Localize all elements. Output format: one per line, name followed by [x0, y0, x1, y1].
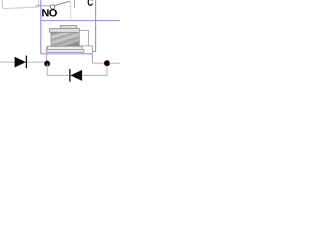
relay coil: top knob	[60, 25, 76, 28]
wire: blue vertical V1 (left)	[40, 0, 42, 54]
relay coil: base bar 2	[46, 49, 84, 52]
relay coil: body (hatched)	[51, 32, 79, 46]
junction node left	[44, 61, 50, 67]
label NO	[42, 9, 48, 16]
junction node right	[104, 60, 110, 65]
wire: blue horizontal H2 (below coil)	[41, 53, 93, 55]
diode D2 (pointing left)	[69, 69, 71, 82]
wire: switch lever arm	[55, 1, 70, 6]
wire: coil left pin down to left node	[46, 46, 48, 61]
label C	[88, 0, 93, 6]
wire: left input to diode D1	[0, 61, 15, 63]
wire: blue vertical V2 (right, C wire)	[95, 0, 97, 51]
wire: D1 to left node	[27, 61, 45, 63]
wire: coil right (plate) lead	[89, 46, 93, 63]
diode D1 (pointing right)	[15, 57, 26, 68]
wire: C fixed contact lead	[74, 0, 76, 8]
armature dashed link	[70, 2, 72, 21]
wire: blue horizontal H1 (top)	[41, 20, 120, 22]
node: switch pivot circle (NO contact)	[50, 5, 54, 9]
wire: left node down	[47, 64, 69, 76]
wire: D2 to right vertical	[82, 63, 107, 75]
wire: right node to right edge	[109, 62, 120, 64]
wire: NO terminal lead	[35, 5, 51, 7]
wire: blue jog V2 bottom to coil wire	[92, 50, 96, 52]
wire: right node left to coil wire	[92, 62, 104, 64]
relay coil: cap bar	[50, 29, 80, 33]
component outline box (top-left gray rounded rect)	[2, 0, 38, 9]
relay coil: base bar 1	[48, 46, 83, 49]
relay coil: white flange plate	[79, 30, 88, 46]
